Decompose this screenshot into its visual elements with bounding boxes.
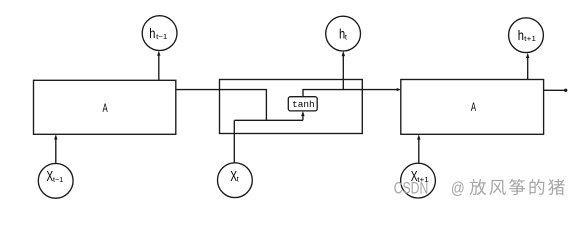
tanh activation box (288, 97, 317, 111)
wire+arrow: h_t+1 stem (527, 57, 529, 80)
wire: right A output with end dot (544, 89, 565, 91)
wire: left A output right then down (176, 90, 267, 121)
wire+arrow: X_t-1 stem into left A bottom (55, 140, 57, 164)
svg-text:tanh: tanh (292, 99, 315, 110)
svg-text:t−1: t−1 (156, 32, 167, 41)
wire: X_t stem (233, 120, 235, 163)
node h_t+1 circle (509, 18, 544, 53)
node X_t-1 circle (38, 163, 73, 198)
svg-text:A: A (103, 103, 108, 115)
block A (right RNN cell) (401, 80, 544, 135)
block A (left RNN cell) (34, 80, 176, 134)
middle RNN cell box (220, 80, 363, 134)
svg-text:CSDN: CSDN (394, 180, 429, 198)
svg-text:h: h (518, 28, 524, 43)
wire+arrow into tanh bottom (302, 116, 304, 121)
watermark @ (451, 180, 465, 198)
wire+arrow: X_t+1 stem into right A bottom (418, 140, 420, 163)
wire: inner horizontal segment (234, 119, 303, 121)
node h_t circle (326, 16, 361, 51)
watermark chinese 放风筝的猪 (469, 179, 486, 195)
svg-text:t−1: t−1 (53, 175, 63, 184)
node X_t circle (218, 163, 253, 198)
svg-text:t+1: t+1 (524, 34, 536, 43)
watermark CSDN (394, 180, 429, 198)
wire: tanh top to right A with arrow (303, 90, 400, 97)
svg-text:@: @ (451, 180, 465, 198)
wire+arrow: h_t-1 stem (158, 55, 160, 81)
svg-text:A: A (471, 102, 476, 114)
node X_t+1 circle (401, 163, 436, 198)
svg-text:h: h (149, 26, 155, 41)
node h_t-1 circle (142, 16, 177, 51)
wire+arrow: h_t stem (342, 55, 344, 90)
